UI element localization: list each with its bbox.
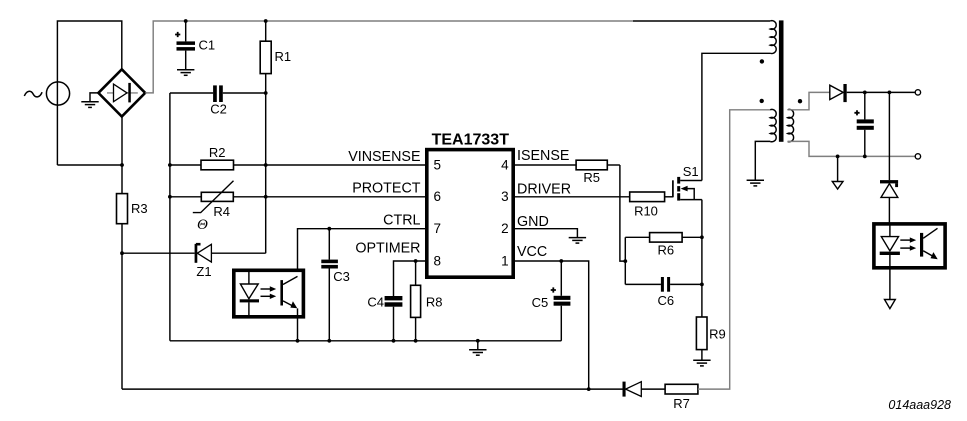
node Cout bottom [863,155,867,159]
diode D1 aux supply [623,382,666,397]
node VCC/bottom rail [587,387,591,391]
svg-text:TEA1733T: TEA1733T [432,131,510,148]
capacitor C2 [170,85,266,116]
wire aux winding to ground [755,141,770,180]
terminal - output [915,154,920,159]
ground at GND pin [569,238,586,244]
resistor R9 [696,317,725,360]
svg-text:R10: R10 [634,204,658,219]
svg-text:3: 3 [501,189,509,204]
wire output top rail [847,91,916,93]
resistor R1 [260,21,291,93]
wire top bus black to transformer [633,20,770,22]
wire R5 down [620,165,625,261]
svg-text:C4: C4 [367,294,384,309]
wire left mid column [169,93,171,341]
ground below R9 [693,360,710,366]
node VCC/C5 [559,259,563,263]
wire GND pin [513,229,577,238]
wire drain up to transformer [702,53,770,180]
node C3/rail [327,339,331,343]
node signal ground [836,155,840,159]
capacitor Cout [854,92,873,156]
wire AC loop bottom [57,164,122,166]
wire secondary top (gray) [788,92,830,109]
svg-text:014aaa928: 014aaa928 [888,398,951,412]
svg-text:4: 4 [501,157,509,172]
svg-text:C2: C2 [210,101,227,116]
resistor R10 [630,192,673,219]
wire secondary bottom rail (gray) [788,141,916,156]
node R1 top [264,19,268,23]
primary winding [770,21,776,54]
wire R7 to aux line (gray) [698,110,770,389]
optocoupler U2 primary side [234,270,304,317]
wire opto emitter to rail [297,308,299,340]
diode D2 output [830,84,847,102]
svg-text:R2: R2 [209,145,226,160]
signal ground arrow below opto [885,300,896,309]
capacitor C4 [367,294,402,341]
optocoupler U2 secondary side [874,224,945,300]
svg-text:R9: R9 [709,327,726,342]
resistor R8 [411,261,443,341]
svg-text:R6: R6 [657,242,674,257]
core [779,20,784,141]
node R3/Z1 [120,251,124,255]
wire mid ground rail [170,340,561,342]
svg-text:R3: R3 [131,201,148,216]
node zener top [888,91,892,95]
zener Z1 [122,244,266,279]
aux winding [770,109,776,141]
svg-text:ISENSE: ISENSE [517,148,569,164]
thermistor R4 [170,181,427,233]
zener D3 output [880,92,898,236]
wire bottom rail [122,388,623,390]
svg-text:DRIVER: DRIVER [517,181,571,197]
MOSFET S1 [673,164,702,200]
wire OPTIMER [394,261,427,296]
svg-text:2: 2 [501,221,509,236]
capacitor C5 [532,261,571,341]
node Cout top [863,91,867,95]
dot secondary [798,99,802,103]
svg-text:C1: C1 [199,38,216,53]
svg-text:C6: C6 [657,293,674,308]
wire source down [701,200,703,317]
capacitor C1 [175,21,215,70]
svg-text:S1: S1 [683,164,699,179]
resistor R7 [665,384,698,411]
svg-text:OPTIMER: OPTIMER [355,241,420,257]
node C4/rail [392,339,396,343]
node R1/R2 [264,163,268,167]
node C2col/R2 [168,163,172,167]
svg-text:R4: R4 [213,204,230,219]
IC U1 TEA1733T [427,131,513,277]
node rail ground [476,339,480,343]
node source/R6 [700,235,704,239]
svg-text:8: 8 [434,253,442,268]
svg-text:VCC: VCC [517,244,547,260]
wire R1 column down [265,93,267,253]
terminal + output [915,90,920,95]
resistor R3 [117,117,148,390]
node OPTIMER/R8 [414,259,418,263]
resistor R2 [170,145,427,170]
wire AC loop top [57,21,121,165]
secondary winding [788,109,794,141]
wire DRIVER [513,196,629,198]
wire VCC pin [513,261,588,389]
svg-text:1: 1 [501,253,509,268]
wire R6C6 left rail [624,237,626,284]
svg-text:5: 5 [434,157,442,172]
bridge rectifier [98,69,145,116]
svg-text:6: 6 [434,189,442,204]
svg-text:R7: R7 [673,396,690,411]
node R5/R6C6 [623,259,627,263]
svg-text:GND: GND [517,214,549,230]
ground below aux winding [747,180,764,186]
node C1 top [184,19,188,23]
capacitor C6 [625,277,702,308]
wire CTRL [298,229,427,277]
svg-text:C5: C5 [532,295,549,310]
dot aux [760,99,764,103]
node source/C6 [700,283,704,287]
wire ISENSE [513,164,576,166]
resistor R5 [576,160,620,185]
capacitor C3 [321,229,350,341]
node R8/rail [414,339,418,343]
svg-text:Z1: Z1 [196,264,211,279]
node R1/R4 [264,195,268,199]
svg-text:CTRL: CTRL [383,213,420,229]
wire bridge output to top bus (gray) [145,21,633,93]
svg-text:PROTECT: PROTECT [352,181,421,197]
node R1/C2 [264,91,268,95]
svg-text:R5: R5 [583,170,600,185]
svg-text:VINSENSE: VINSENSE [348,149,420,165]
ground at bridge [81,93,98,108]
svg-text:R1: R1 [275,49,292,64]
ground below C1 [177,70,194,76]
node CTRL/C3 [327,227,331,231]
AC source V1 [24,82,69,105]
svg-text:C3: C3 [333,269,350,284]
ground at mid rail [469,341,486,355]
node emitter/rail [296,339,300,343]
signal ground arrow [832,156,843,189]
svg-text:7: 7 [434,221,442,236]
transformer T1 [760,20,803,141]
dot primary [760,59,764,63]
resistor R6 [625,233,702,258]
svg-text:Θ: Θ [197,217,208,233]
svg-text:R8: R8 [426,294,443,309]
node C2col/R4 [168,195,172,199]
